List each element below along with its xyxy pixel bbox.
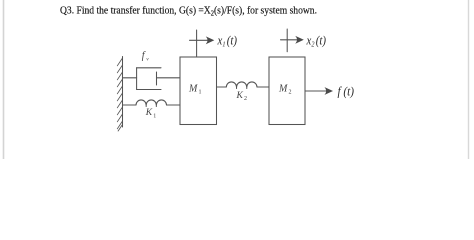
svg-text:1: 1 xyxy=(153,113,156,119)
wire damper to M1 xyxy=(157,77,181,79)
svg-text:x1(t): x1(t) xyxy=(217,33,237,48)
damper fv cylinder xyxy=(136,68,138,90)
svg-text:M: M xyxy=(188,84,198,95)
svg-text:2: 2 xyxy=(289,90,292,96)
svg-text:f (t): f (t) xyxy=(338,85,355,99)
spring K2 coil xyxy=(226,82,257,87)
wire spring K1 to M1 xyxy=(167,104,181,106)
svg-text:2: 2 xyxy=(244,96,247,102)
wire spring K2 to M2 xyxy=(257,86,269,88)
spring K1 coil xyxy=(136,100,167,105)
wall xyxy=(122,57,124,128)
svg-text:Q3. Find the transfer function: Q3. Find the transfer function, G(s) =X2… xyxy=(60,5,317,18)
damper piston xyxy=(156,72,158,85)
svg-text:1: 1 xyxy=(199,90,202,96)
svg-text:M: M xyxy=(278,84,288,95)
mass M1 box xyxy=(180,57,217,125)
svg-text:x2(t): x2(t) xyxy=(306,33,326,48)
svg-text:K: K xyxy=(236,91,244,101)
svg-text:K: K xyxy=(145,108,153,118)
page background xyxy=(0,0,474,159)
wire wall to spring K1 xyxy=(123,104,137,106)
arrow f(t) xyxy=(305,90,331,92)
arrow x2(t) xyxy=(286,29,288,52)
left page-edge scan line xyxy=(3,0,5,159)
mass M2 box xyxy=(269,57,305,125)
wire M1 to spring K2 xyxy=(217,86,227,88)
right page-edge scan line xyxy=(468,0,470,159)
arrow x1(t) xyxy=(196,30,198,56)
wire wall to damper xyxy=(123,77,137,79)
wall hatching xyxy=(117,58,122,131)
